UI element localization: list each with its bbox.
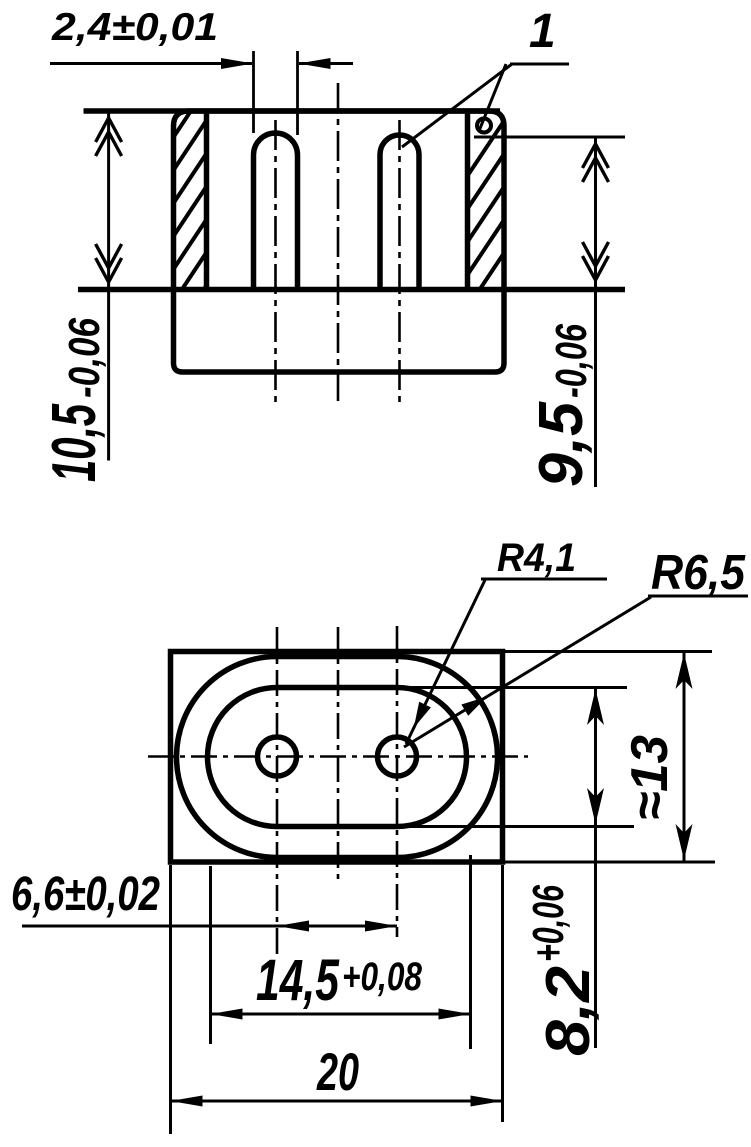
svg-text:-0,06: -0,06 [60, 318, 109, 398]
svg-text:2,4±0,01: 2,4±0,01 [51, 6, 218, 49]
wire extension 14,5 left [209, 866, 212, 1044]
arrow R6,5 [461, 697, 487, 716]
dimension 10,5-0,06 line [107, 111, 110, 461]
svg-text:9,5: 9,5 [527, 401, 596, 487]
svg-text:R4,1: R4,1 [497, 536, 576, 580]
wire leader 1 to slot arch [402, 64, 512, 147]
dimension 2,4±0,01 line [50, 62, 252, 65]
wire extension rect top right [502, 650, 712, 653]
wire extension rect bottom right [502, 861, 715, 864]
wire extension line 2,4 left [252, 51, 255, 133]
svg-text:6,6±0,02: 6,6±0,02 [11, 868, 160, 921]
dimension 14,5+0,08 line [211, 1013, 471, 1016]
svg-text:-0,06: -0,06 [547, 324, 596, 398]
part plan outer obround R6,5 [177, 657, 498, 858]
wire extension 20 right [501, 865, 504, 1122]
hole left pin [258, 737, 297, 776]
wire top edge extension line [84, 108, 501, 114]
dimension ≈13 line [683, 652, 686, 863]
wire leader 1 underline [510, 63, 569, 66]
node centerline plan axis [337, 627, 340, 885]
label ≈13 [621, 735, 679, 820]
wire extension 8,2 bottom [397, 825, 634, 828]
svg-text:8,2: 8,2 [534, 966, 603, 1056]
wire leader R6,5 underline [648, 595, 748, 598]
svg-text:+0,08: +0,08 [342, 955, 423, 999]
slot right contact tube [380, 135, 419, 290]
wire leader 1 to corner hole [479, 64, 506, 131]
part body outline [174, 111, 505, 372]
svg-text:20: 20 [316, 1043, 359, 1102]
svg-text:+0,06: +0,06 [524, 885, 573, 962]
label 10,5-0,06 [40, 318, 109, 482]
part plan rectangle [171, 652, 503, 863]
wire right wall inner edge [465, 111, 471, 290]
wire extension 8,2 top [397, 686, 627, 689]
dimension 8,2+0,06 line [594, 688, 597, 1049]
svg-text:10,5: 10,5 [40, 403, 109, 482]
wire leader R4,1 underline [481, 578, 607, 581]
dimension 20 line [171, 1100, 503, 1103]
svg-text:14,5: 14,5 [256, 948, 340, 1013]
part plan inner obround R4,1 [208, 688, 467, 827]
node centerline left slot [274, 120, 277, 407]
node section floor line [78, 287, 625, 293]
wire extension line 2,4 right [296, 51, 299, 135]
node centerline left hole [276, 627, 279, 954]
svg-text:R6,5: R6,5 [651, 546, 746, 600]
node centerline part axis [337, 83, 340, 405]
wire extension line 9,5 top [474, 136, 625, 139]
node centerline horizontal [148, 755, 528, 758]
wire leader R6,5 diagonal [404, 597, 651, 747]
hole right pin [378, 737, 417, 776]
label 9,5-0,06 [527, 324, 596, 487]
wire extension 20 left [169, 865, 172, 1134]
node centerline right hole [396, 626, 399, 937]
wire extension 14,5 right [469, 855, 472, 1049]
label 8,2+0,06 [524, 885, 603, 1056]
wire left wall inner edge [204, 111, 210, 290]
dimension 6,6±0,02 line [22, 925, 397, 928]
slot left contact tube [254, 133, 298, 290]
svg-text:≈13: ≈13 [621, 735, 679, 820]
svg-text:1: 1 [529, 5, 556, 58]
dimension 9,5-0,06 line [594, 137, 597, 487]
hatch right wall [458, 106, 514, 355]
arrow R4,1 [414, 702, 431, 728]
hole corner vent circle [477, 119, 491, 133]
wire leader R4,1 diagonal [406, 580, 485, 744]
hatch left wall [163, 73, 216, 351]
node centerline right slot [398, 120, 401, 407]
